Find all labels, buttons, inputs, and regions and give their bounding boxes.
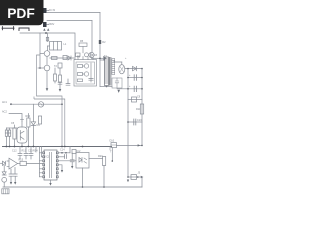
capacitor C10 bbox=[9, 174, 13, 182]
svg-text:C12: C12 bbox=[12, 150, 17, 153]
snubber box bbox=[58, 63, 62, 68]
pin stubs top bbox=[78, 57, 93, 60]
svg-text:PDF: PDF bbox=[7, 6, 35, 21]
connector J1 bbox=[43, 8, 47, 13]
arrowhead bbox=[141, 176, 144, 178]
diode D6 bbox=[2, 165, 6, 175]
box above bbox=[72, 150, 76, 154]
ground arrow below IC bbox=[50, 180, 52, 183]
svg-text:R13: R13 bbox=[22, 150, 27, 153]
connector J2 bbox=[43, 22, 47, 27]
resistor R6 bbox=[140, 104, 143, 114]
fusible resistor bbox=[46, 37, 48, 41]
stub at right bbox=[109, 147, 111, 151]
inner resistor bbox=[78, 65, 83, 68]
LED D5 bbox=[3, 161, 6, 165]
wire bbox=[6, 128, 9, 147]
svg-text:R14: R14 bbox=[33, 150, 38, 153]
varistor RV1 bbox=[38, 102, 43, 107]
wire bbox=[100, 59, 105, 61]
rail 0 bbox=[127, 69, 129, 177]
wire base net bbox=[50, 57, 74, 59]
rung 2 bbox=[117, 88, 142, 90]
wire bbox=[103, 166, 105, 188]
capacitor C6b bbox=[8, 130, 10, 136]
rung 1 bbox=[128, 77, 142, 79]
wire bbox=[26, 163, 43, 165]
capacitor C5 bbox=[134, 119, 136, 125]
capacitor C6 bbox=[5, 130, 7, 136]
resistor R3 bbox=[54, 74, 57, 81]
rectifier D9 bbox=[119, 65, 125, 74]
wire bbox=[89, 158, 103, 160]
stub below regulator bbox=[111, 148, 113, 161]
ground arrow bbox=[14, 182, 16, 185]
PDF badge bbox=[0, 0, 44, 25]
shield line 2 bbox=[34, 97, 65, 147]
junction bbox=[39, 67, 41, 69]
wire bbox=[54, 68, 56, 74]
bottom right wire bbox=[128, 176, 141, 178]
inner resistor bbox=[78, 73, 83, 76]
wire bbox=[82, 47, 84, 53]
junction bbox=[99, 58, 101, 60]
inner wires bbox=[83, 63, 94, 82]
wire bbox=[114, 61, 122, 63]
wire transformer return bbox=[100, 86, 112, 88]
rung 4 bbox=[128, 121, 142, 123]
wire bbox=[69, 147, 71, 153]
wire bbox=[59, 68, 61, 75]
junction bbox=[106, 86, 108, 88]
inner transistor bbox=[84, 72, 88, 76]
wire bbox=[9, 114, 22, 119]
diode D2 bbox=[133, 66, 137, 70]
diode D1 bbox=[68, 56, 71, 60]
svg-text:AC IN: AC IN bbox=[49, 9, 56, 12]
trimmer bbox=[21, 118, 24, 121]
resistor R7 bbox=[27, 118, 30, 127]
choke L1 bbox=[50, 42, 62, 51]
wire bbox=[40, 53, 44, 55]
capacitor C13 bbox=[65, 155, 67, 159]
shield line 1 bbox=[37, 55, 63, 147]
regulator VR1 bbox=[111, 143, 117, 148]
wire bbox=[82, 168, 84, 187]
diode above bbox=[91, 54, 94, 57]
wire bbox=[46, 56, 48, 65]
bottom bus bbox=[3, 186, 142, 188]
wire bbox=[58, 165, 62, 170]
inner transistor bbox=[84, 64, 88, 68]
resistor R8 bbox=[13, 128, 16, 139]
wire pin1 right bbox=[58, 152, 70, 154]
junction bbox=[127, 68, 129, 70]
wire bbox=[117, 144, 143, 146]
wire left rail bbox=[39, 33, 41, 68]
wire bbox=[11, 103, 62, 105]
wire L line bbox=[47, 12, 100, 14]
diode D8 bbox=[104, 57, 107, 61]
transistor Q4 bbox=[17, 127, 27, 143]
capacitor C12 bbox=[70, 153, 74, 166]
terminal block bbox=[2, 189, 9, 194]
svg-text:R10: R10 bbox=[26, 115, 31, 118]
pin stub wires bbox=[40, 153, 43, 177]
wire choke feed bbox=[47, 33, 49, 42]
wire mains bus bbox=[20, 33, 75, 60]
capacitor C9 bbox=[29, 154, 33, 160]
ground arrow bbox=[127, 180, 129, 183]
sub-circuit box U1 bbox=[74, 60, 97, 87]
svg-text:D10: D10 bbox=[110, 140, 115, 143]
ground arrow bbox=[59, 89, 62, 92]
wire bbox=[48, 45, 50, 47]
transistor Q1 bbox=[44, 51, 50, 57]
wire bbox=[18, 163, 21, 165]
svg-text:R15: R15 bbox=[19, 159, 24, 162]
capacitor C8 bbox=[24, 154, 28, 160]
capacitor C3 bbox=[134, 75, 136, 81]
op-amp U4 bbox=[9, 158, 18, 169]
svg-text:IC1: IC1 bbox=[46, 156, 51, 159]
capacitor C11 bbox=[13, 174, 17, 182]
left pin rails bbox=[40, 147, 42, 177]
resistor R9 bbox=[20, 161, 26, 165]
inner resistor low bbox=[78, 79, 83, 82]
svg-text:AC1: AC1 bbox=[2, 101, 7, 104]
ground arrow bbox=[117, 90, 120, 93]
wire bbox=[141, 177, 143, 187]
resistor above bbox=[76, 53, 81, 57]
wire bridge out bbox=[125, 68, 142, 70]
ground arrow bbox=[71, 166, 73, 169]
arrows below bbox=[43, 28, 49, 31]
svg-text:R20: R20 bbox=[98, 155, 103, 158]
optocoupler U3 bbox=[76, 153, 89, 169]
capacitor C7 bbox=[18, 154, 22, 160]
fusible R bbox=[99, 40, 101, 44]
snubber box secondary bbox=[112, 78, 122, 88]
diode D7 bbox=[131, 175, 137, 180]
svg-text:230V: 230V bbox=[49, 23, 55, 26]
junction dots bbox=[6, 146, 84, 148]
wire bbox=[91, 57, 93, 60]
svg-text:C14: C14 bbox=[60, 149, 65, 152]
resistor R2 bbox=[52, 57, 58, 60]
rung 3 bbox=[128, 99, 142, 101]
ground arrow bbox=[10, 182, 12, 185]
svg-text:C10: C10 bbox=[137, 119, 142, 122]
inductor L2 bbox=[132, 97, 137, 102]
wire vertical to primary bbox=[99, 13, 101, 87]
svg-text:IC2: IC2 bbox=[77, 150, 82, 153]
capacitor C2a bbox=[58, 83, 62, 85]
box bbox=[63, 56, 67, 60]
resistor R4 bbox=[59, 75, 62, 82]
junction bbox=[61, 103, 63, 105]
transistor above bbox=[85, 53, 89, 57]
wires below opamp bbox=[11, 168, 15, 174]
transistor Q3 bbox=[89, 52, 94, 57]
ground arrow bbox=[61, 170, 63, 173]
capacitor C4 bbox=[134, 86, 136, 92]
rails below bus bbox=[20, 147, 36, 154]
svg-text:AC2: AC2 bbox=[2, 111, 7, 114]
node AC1 bbox=[10, 103, 12, 105]
main bus bbox=[2, 146, 112, 148]
diode D4 bbox=[31, 122, 35, 126]
wire bbox=[46, 71, 48, 89]
switch S1 bbox=[19, 28, 29, 31]
junction bbox=[45, 32, 47, 34]
zener circle bbox=[2, 177, 7, 182]
resistor R12 bbox=[38, 116, 41, 124]
ground arrow bbox=[46, 88, 49, 91]
wire vertical to Q3 bbox=[91, 21, 93, 53]
svg-text:R11: R11 bbox=[136, 108, 141, 111]
rail + bbox=[141, 69, 143, 146]
wire N line bbox=[47, 20, 92, 22]
resistor R10 bbox=[103, 157, 106, 166]
transistor Q2 bbox=[44, 65, 50, 71]
wire bbox=[38, 67, 44, 69]
wire bbox=[67, 79, 69, 84]
wire bbox=[58, 160, 76, 162]
fuse F1 bbox=[2, 27, 14, 30]
capacitor C2 bbox=[66, 84, 70, 86]
resistor R5 bbox=[79, 43, 87, 47]
